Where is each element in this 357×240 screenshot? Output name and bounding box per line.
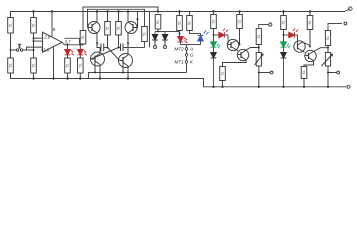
thyristor VS blue [187,31,209,45]
resistor R10 [155,15,180,33]
wire bottom left bus [11,73,347,87]
op-amp pin labels [41,27,72,53]
svg-text:51: 51 [212,20,216,24]
label MT2-A [175,47,195,73]
svg-text:51: 51 [178,21,182,25]
svg-text:51: 51 [238,20,242,24]
resistor value marks [9,20,331,76]
wire R2 column down [33,34,35,46]
node dots bottom bus [32,77,329,88]
node dots top bus [32,10,311,12]
transistor VT8 [304,48,328,67]
svg-text:51: 51 [32,64,36,68]
wire cross coupling [91,47,120,61]
diode VD4 [162,32,168,46]
transistor VT5 [227,39,239,51]
svg-text:К: К [190,60,193,65]
wire emitter line [89,73,187,79]
resistor R19 [301,67,307,87]
transistor VT6 [223,48,259,67]
wire top bus [11,9,351,18]
svg-text:51: 51 [308,21,312,25]
LED VD5 red [213,29,232,45]
svg-text:+3,6: +3,6 [41,48,50,53]
svg-text:51: 51 [117,26,121,30]
wire mid vertical [149,12,151,48]
svg-text:G: G [190,53,194,58]
terminal bottom right [347,85,350,88]
terminal R20 top [344,22,347,25]
svg-text:МТ1: МТ1 [175,60,185,65]
svg-text:51: 51 [188,21,192,25]
svg-text:А: А [189,47,193,52]
svg-text:51: 51 [326,36,330,40]
svg-text:51: 51 [257,35,261,39]
op-amp DA1 [43,32,63,52]
svg-text:51: 51 [78,64,82,68]
resistor R8 [128,27,147,48]
wire upper cross line A [83,7,158,31]
resistor R6 [105,12,111,48]
svg-text:51: 51 [156,20,160,24]
resistor R3b [31,50,37,79]
wire op-amp output [62,38,80,49]
resistor R13 [211,12,217,42]
LED VD6 green [211,42,221,48]
svg-text:51: 51 [66,64,70,68]
terminal out2 [164,46,167,49]
LED VD1 red [65,50,74,56]
resistor R5b above LED2 [80,31,86,45]
trimmer RP2 [322,53,337,87]
resistor R15 [220,67,226,87]
terminal wiper2 [337,71,340,74]
thyristor VS red [178,37,188,48]
capacitor C1 [98,44,108,52]
input jack X1 [10,44,43,51]
svg-text:51: 51 [81,35,85,39]
resistor R3 [8,50,14,79]
resistor R7 [116,12,122,48]
LED VD2 red [78,50,87,56]
resistor R11 [177,12,183,37]
svg-text:51: 51 [32,23,36,27]
svg-text:51: 51 [9,23,13,27]
resistor R20 [325,24,342,53]
resistor R2 [31,12,37,34]
svg-text:51: 51 [282,21,286,25]
svg-text:МТ2: МТ2 [175,47,185,52]
diode VD7 [211,47,217,87]
resistor R1 [8,12,14,51]
resistor R16 [256,25,268,53]
resistor R12 [187,12,193,34]
svg-text:51: 51 [9,64,13,68]
svg-text:3,7: 3,7 [65,40,72,45]
LED VD9 green [281,42,291,48]
terminal top right [349,7,353,11]
diode VD3 [152,32,158,46]
svg-text:2,6: 2,6 [43,35,51,40]
svg-text:51: 51 [143,32,147,36]
resistor R14 [237,12,243,46]
terminal wiper [270,71,273,74]
terminal R16 top [269,23,272,26]
diode VD10 [281,47,287,87]
terminal out1 [154,46,157,49]
transistor VT3 [91,48,105,79]
wire to op-amp inputs [33,34,43,52]
capacitor C2 [119,44,129,52]
transistor VT2 [125,12,139,48]
resistor R4 [65,55,71,79]
wire opamp pin8 [51,12,53,38]
wire op-amp V- pin [52,47,54,80]
transistor VT1 [88,12,101,48]
resistor R18 [307,12,313,48]
transistor VT4 [119,48,133,79]
wire upper cross line B [88,9,145,27]
trimmer RP1 [255,53,271,87]
svg-text:51: 51 [221,72,225,76]
resistor R17 [281,12,287,42]
transistor VT7 [294,41,310,53]
LED VD8 red [283,29,299,44]
svg-text:51: 51 [302,71,306,75]
svg-text:51: 51 [106,26,110,30]
resistor R5 [78,55,84,79]
